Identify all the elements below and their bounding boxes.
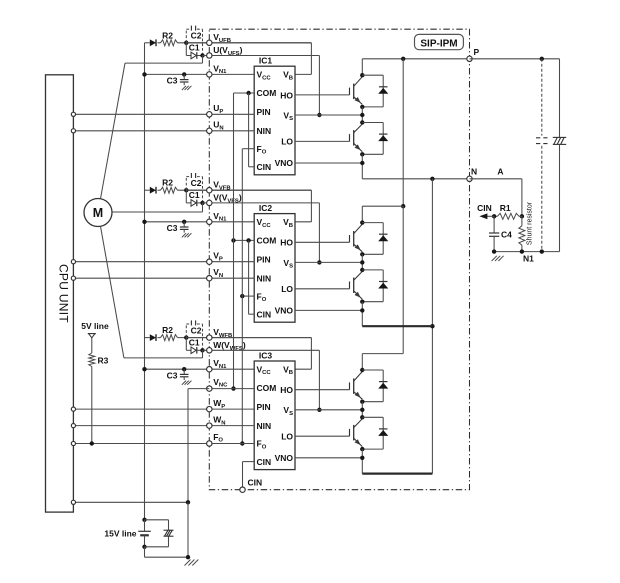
wire VN row from CPU to NIN [73,277,254,279]
wire VB link vertical IC3 [310,338,312,370]
pin VVFB [207,188,212,193]
svg-text:COM: COM [257,383,277,393]
pin VN at CPU [71,276,75,280]
pin U(VUFS) output [207,53,212,58]
pin UN at CPU [71,129,75,133]
node P bus at V phase [401,204,405,208]
diode upper freewheel IC1 [362,74,383,76]
wire VUFB row into package to VB link [186,42,311,44]
node 15V loop bottom [142,545,146,549]
node 15V loop top [142,518,146,522]
wire U-phase output row to VS link [203,55,320,57]
svg-text:LO: LO [281,137,293,147]
CPU UNIT box [46,75,74,512]
svg-text:CIN: CIN [248,478,263,488]
pin VN1 IC3 [207,367,212,372]
wire N1 bottom rail [494,251,559,253]
svg-text:C3: C3 [167,76,178,86]
node C1 output junction IC2 [200,201,204,205]
svg-text:N: N [471,166,477,176]
svg-text:COM: COM [257,88,277,98]
pin UP at CPU [71,112,75,116]
wire WN row from CPU to NIN [73,425,254,427]
node lower emitter IC3 [360,447,364,451]
wire U emitter to N rail [362,178,469,180]
wire W-phase output row to VS link [203,349,320,351]
capacitor C1 (IC1 bootstrap) [185,43,187,56]
svg-text:C3: C3 [167,223,178,233]
svg-text:PIN: PIN [257,255,271,265]
motor M [84,199,112,227]
wire VS link vertical IC1 [318,56,320,116]
bootstrap diode D1 [150,39,156,46]
node bootstrap junction after R2 IC2 [184,188,188,192]
node COM-CIN tie IC1 [246,91,250,95]
svg-text:SIP-IPM: SIP-IPM [420,38,457,49]
bootstrap diode D2 [150,187,156,194]
node VS junction IC1 [317,113,321,117]
capacitor C3 (IC1) [183,74,185,79]
wire VNO sense IC2 [295,309,362,311]
transistor upper IGBT (U high side) [349,88,351,95]
ground (C4) [492,256,497,261]
node Fo bus end at FO row [240,441,244,445]
SIP-IPM label box [415,34,464,49]
wire VS link vertical IC3 [318,350,320,410]
wire CIN tie-down IC1 [248,93,250,167]
diode lower freewheel IC1 [362,122,383,124]
wire CIN tie-down IC2 [248,240,250,314]
wire VN1 row IC3 [145,368,255,370]
node bootstrap junction after R2 IC1 [184,41,188,45]
pin VN1 IC1 [207,72,212,77]
node P bus tap [401,57,405,61]
node lower collector IC3 [360,415,364,419]
node C1 output junction IC3 [200,348,204,352]
node C4 bottom [492,249,496,253]
node upper emitter IC3 [360,400,364,404]
pin P [467,56,472,61]
wire VNC down to common rail [188,388,209,390]
svg-text:NIN: NIN [257,126,272,136]
wire VN1 row IC1 [145,73,255,75]
pin VN boundary [207,276,212,281]
node VNO tap IC3 [360,456,364,460]
node P to snubber branch [540,57,544,61]
capacitor C3 (IC3) [183,369,185,374]
node shunt bottom [520,249,524,253]
capacitor snubber (dashed, optional) [541,59,543,136]
svg-text:C1: C1 [189,190,200,200]
node C3 tap IC1 [182,72,186,76]
diode upper freewheel IC2 [362,222,383,224]
svg-text:IC1: IC1 [259,56,273,66]
wire Fo IC1 [242,148,254,150]
resistor R3 [89,353,95,367]
wire common drop to ground rail [187,502,189,557]
wire 15V parallel loop with source symbol [145,519,169,521]
pin WP at CPU [71,407,75,411]
resistor R2 (IC2 bootstrap) [161,187,178,193]
wire VVFB row into package to VB link [186,189,311,191]
pin WN at CPU [71,424,75,428]
node 15V bus to VN1 IC1 [142,72,146,76]
pin VNC [207,386,212,391]
node COM-CIN tie IC2 [246,238,250,242]
svg-text:C4: C4 [501,229,512,239]
op-amp/driver IC3 box [254,361,295,470]
wire V collector feed [362,205,403,207]
wire HO gate IC3 [295,389,350,391]
pin WP boundary [207,406,212,411]
wire 15V feed to bootstrap diode IC3 [145,337,150,339]
wire VB link vertical IC1 [310,43,312,75]
pin CIN boundary [240,487,245,492]
svg-text:HO: HO [280,90,293,100]
wire WP row from CPU to PIN [73,408,254,410]
resistor shunt [521,216,523,226]
svg-text:COM: COM [257,236,277,246]
pin VN1 IC2 [207,219,212,224]
svg-text:IC3: IC3 [259,351,273,361]
wire R2 to VVFB pin [178,189,312,191]
svg-text:LO: LO [281,284,293,294]
wire VNO sense IC3 [295,457,362,459]
wire Fo IC2 [242,295,254,297]
svg-text:R3: R3 [98,355,109,365]
svg-text:NIN: NIN [257,421,272,431]
wire upper collector to P rail IC1 [361,59,363,75]
node ground rail junction [186,555,190,559]
node lower collector IC2 [360,268,364,272]
wire UP row from CPU to PIN [73,113,254,115]
node lower emitter IC2 [360,300,364,304]
power source symbol (15V hatched box) [164,529,174,531]
svg-text:N1: N1 [523,254,534,264]
wire R2 to VWFB pin [178,337,312,339]
wire upper collector to P rail IC2 [361,206,363,222]
wire UN row from CPU to NIN [73,130,254,132]
wire VS to midpoint IC1 [295,114,362,116]
wire 15V feed to bootstrap diode IC2 [145,189,150,191]
node VNO tap IC1 [360,161,364,165]
svg-text:C2: C2 [191,178,202,188]
node R3 to FO junction [90,441,94,445]
wire P rail [362,58,469,60]
wire N to shunt branch (A node) [470,178,522,180]
node COM bus at IC2 [231,238,235,242]
node VS junction IC2 [317,260,321,264]
wire LO gate IC1 [295,140,350,142]
capacitor C1 (IC2 bootstrap) [185,190,187,203]
node midpoint VS tap IC3 [360,408,364,412]
pin V(VVFS) output [207,200,212,205]
transistor lower IGBT (W low side) [349,429,351,436]
node upper collector IC3 [360,368,364,372]
wire Fo bus vertical [241,149,243,444]
node lower collector IC1 [360,120,364,124]
wire HO gate IC2 [295,241,350,243]
node N bus at V rail [430,324,434,328]
wire N bus vertical [431,179,433,474]
svg-text:CIN: CIN [257,457,272,467]
capacitor C2 (IC2, optional, dashed) [185,177,187,191]
transistor upper IGBT (W high side) [349,382,351,389]
op-amp/driver IC1 box [254,66,295,175]
wire VB link vertical IC2 [310,190,312,222]
node 15V bus to VN1 IC2 [142,220,146,224]
wire R2 to VUFB pin [178,42,312,44]
transistor lower IGBT (U low side) [349,134,351,141]
node common rail to VNC drop [186,500,190,504]
node upper collector IC1 [360,73,364,77]
wire VP row from CPU to PIN [73,261,254,263]
svg-text:IC2: IC2 [259,203,273,213]
svg-text:C2: C2 [191,31,202,41]
diode lower freewheel IC2 [362,269,383,271]
wire 15V feed to bootstrap diode IC1 [145,42,150,44]
diode lower freewheel IC3 [362,416,383,418]
node C1 output junction IC1 [200,53,204,57]
svg-text:NIN: NIN [257,273,272,283]
svg-text:CIN: CIN [257,309,272,319]
pin W(VWFS) output [207,348,212,353]
node snubber bottom [540,249,544,253]
ground (C3 IC1) [182,86,186,90]
resistor R1 [497,213,519,219]
svg-text:R1: R1 [500,203,511,213]
15V supply bus vertical [144,43,146,520]
pin UN boundary [207,128,212,133]
svg-text:R2: R2 [162,325,173,335]
node upper collector IC2 [360,220,364,224]
wire COM IC2 [234,239,255,241]
ground (C3 IC3) [182,381,186,385]
ground (C3 IC2) [182,233,186,237]
transistor upper IGBT (V high side) [349,235,351,242]
bootstrap diode D3 [150,334,156,341]
node lower emitter IC1 [360,152,364,156]
power source symbol (DC bus hatched box) [553,136,566,138]
node bootstrap junction after R2 IC3 [184,335,188,339]
pin VP boundary [207,259,212,264]
wire R1 to C4 [494,215,497,217]
wire VN1 row IC2 [145,221,255,223]
node COM bus end at VNC row [231,386,235,390]
capacitor C1 (IC3 bootstrap) [185,338,187,351]
node N bus tap [430,177,434,181]
wire HO gate IC1 [295,94,350,96]
wire W-phase output to motor (diagonal + corner) [101,226,124,358]
svg-text:C2: C2 [191,325,202,335]
node shunt top [520,214,524,218]
resistor R2 (IC3 bootstrap) [161,335,178,341]
capacitor C3 (IC2) [183,222,185,227]
svg-text:HO: HO [280,385,293,395]
wire W collector feed [362,353,403,355]
node midpoint VS tap IC1 [360,113,364,117]
pin VP at CPU [71,260,75,264]
svg-text:15V line: 15V line [104,528,136,538]
wire upper collector to P rail IC3 [361,354,363,370]
svg-text:VNO: VNO [275,305,294,315]
node 15V bus to VN1 IC3 [142,367,146,371]
wire DC bus right vertical [559,59,561,138]
node C4 top [492,214,496,218]
wire P to external DC bus [470,58,560,60]
diode upper freewheel IC3 [362,369,383,371]
wire U-phase output to motor (corner + diagonal) [202,56,204,64]
wire 15V bus to ground rail [144,547,146,557]
wire VNC to COM IC3 [209,388,254,390]
svg-text:R2: R2 [162,30,173,40]
wire COM bus vertical [233,93,235,389]
capacitor C2 (IC1, optional, dashed) [185,29,187,43]
wire FO row from CPU to IC3 [73,443,254,445]
wire VS to midpoint IC2 [295,261,362,263]
wire VNO sense IC1 [295,162,362,164]
svg-text:C1: C1 [189,337,200,347]
wire LO gate IC2 [295,288,350,290]
ground (main) [185,560,191,566]
svg-text:M: M [93,206,103,220]
wire V-phase output to motor [202,203,204,212]
pin VWFB [207,335,212,340]
svg-text:R2: R2 [162,178,173,188]
svg-text:PIN: PIN [257,402,271,412]
capacitor C2 (IC3, optional, dashed) [185,324,187,338]
pin VUFB [207,40,212,45]
CIN off-page arrow [487,215,494,217]
SIP-IPM package boundary (dash-dot outline) [209,29,469,490]
node midpoint VS tap IC2 [360,260,364,264]
node Fo bus at IC2 [240,294,244,298]
wire W emitter rail [362,473,432,475]
wire V-phase output row to VS link [203,202,320,204]
node C3 tap IC3 [182,367,186,371]
pin UP boundary [207,112,212,117]
pin FO boundary [207,441,212,446]
node upper emitter IC1 [360,105,364,109]
wire VWFB row into package to VB link [186,337,311,339]
wire CIN3 to boundary pin [243,461,255,463]
svg-text:CPU UNIT: CPU UNIT [57,264,71,323]
svg-text:CIN: CIN [477,203,492,213]
transistor lower IGBT (V low side) [349,282,351,289]
node C3 tap IC2 [182,220,186,224]
svg-text:5V line: 5V line [81,321,109,331]
svg-text:A: A [497,166,503,176]
svg-text:HO: HO [280,238,293,248]
wire CPU common return rail [73,501,188,503]
svg-text:PIN: PIN [257,107,271,117]
wire LO gate IC3 [295,435,350,437]
resistor R2 (IC1 bootstrap) [161,40,178,46]
wire 5V to R3 [91,338,93,353]
svg-text:Shunt resistor: Shunt resistor [527,201,534,245]
wire R3 to FO line [91,367,93,444]
svg-text:LO: LO [281,431,293,441]
svg-text:C1: C1 [189,43,200,53]
node VNO tap IC2 [360,308,364,312]
pin FO at CPU [71,441,75,445]
wire VS link vertical IC2 [318,203,320,263]
node upper emitter IC2 [360,252,364,256]
svg-text:P: P [474,47,480,57]
svg-text:CIN: CIN [257,162,272,172]
svg-text:VNO: VNO [275,453,294,463]
wire V emitter rail [362,325,432,327]
svg-text:VNO: VNO [275,158,294,168]
node VS junction IC3 [317,408,321,412]
wire P bus vertical [402,59,404,206]
pin common at CPU [71,500,75,504]
op-amp/driver IC2 box [254,214,295,323]
wire COM IC1 [234,92,255,94]
capacitor C4 [493,216,495,233]
pin WN boundary [207,423,212,428]
pin N [467,176,472,181]
svg-text:C3: C3 [167,370,178,380]
wire VS to midpoint IC3 [295,409,362,411]
